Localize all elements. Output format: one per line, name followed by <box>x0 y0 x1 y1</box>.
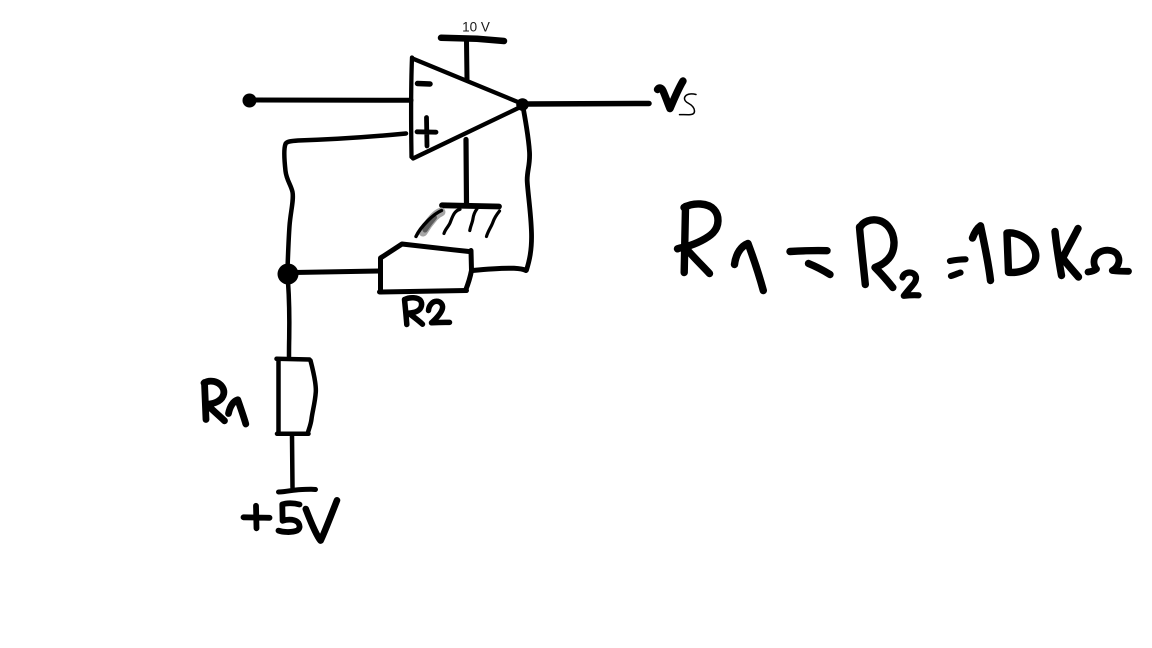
equation R1 = R2 = 10 KOhm <box>678 204 1129 296</box>
eq 10 <box>973 226 991 281</box>
label R1 <box>204 381 246 424</box>
op-amp U1 <box>411 58 522 159</box>
ground wire <box>463 140 469 205</box>
wire output feedback down <box>524 110 532 271</box>
resistor R1 <box>277 359 316 434</box>
eq R2 <box>860 227 866 285</box>
wire output to Vs <box>527 101 649 107</box>
wire node to R2 <box>294 271 379 273</box>
wire non-inverting feedback <box>284 134 406 270</box>
wire supply to op-amp <box>464 41 470 80</box>
wire inverting input <box>251 98 411 103</box>
eq Ohm <box>1088 250 1129 272</box>
ground <box>416 205 500 236</box>
power supply bar 10V <box>441 38 504 41</box>
eq K <box>1055 229 1079 278</box>
svg-text:10 V: 10 V <box>462 20 490 35</box>
eq equals 2 <box>950 259 966 276</box>
wire node to R1 <box>288 282 289 357</box>
label Vs <box>658 81 697 115</box>
input terminal dot <box>243 94 257 108</box>
wire R2 to output <box>473 268 527 270</box>
eq equals 1 <box>790 247 827 255</box>
+5V terminal bar <box>279 489 316 492</box>
label +5V <box>244 500 338 540</box>
eq R1 <box>684 207 685 273</box>
label R2 <box>405 298 450 325</box>
wire R1 to +5V <box>290 436 295 488</box>
node junction <box>278 264 299 285</box>
output node dot <box>516 98 529 111</box>
resistor R2 <box>380 244 472 292</box>
